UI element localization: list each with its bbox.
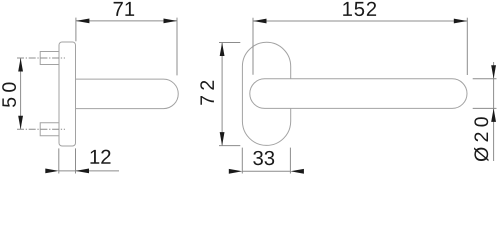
dimension 72: top arrow <box>220 43 225 57</box>
label 72 (rotated) <box>200 81 214 105</box>
dimension D20: top arrow (outside) <box>491 65 496 79</box>
dimension 152: right extension line <box>466 18 468 75</box>
dimension 152: right arrow <box>454 19 468 24</box>
oval rosette (front view) with gap at lever <box>242 42 290 145</box>
lever handle (front view) <box>250 79 467 109</box>
dimension 33: right arrow (outside) <box>290 169 304 174</box>
dimension 72: dimension line <box>221 43 223 146</box>
dimension 50: dimension line <box>20 58 22 129</box>
dimension 71: left extension line <box>75 18 77 42</box>
dimension 152: left extension line <box>252 18 254 75</box>
dimension 33: left extension line <box>241 148 243 174</box>
bottom fixing stud (side view) <box>40 123 59 136</box>
dimension 71: right arrow <box>164 19 178 24</box>
dimension D20: bottom arrow (outside) <box>491 108 496 122</box>
dimension 33: right extension line <box>289 148 291 174</box>
dimension 72: bottom extension line <box>219 145 240 147</box>
dimension 12: left extension line <box>58 148 60 173</box>
dimension 33: dimension line <box>242 170 290 172</box>
centerline bottom stud <box>17 128 65 130</box>
dimension 12: dimension line with right tail <box>59 170 119 172</box>
dimension 72: bottom arrow <box>220 132 225 146</box>
dimension 12: right extension line <box>75 148 77 173</box>
dimension D20: bottom extension line <box>473 107 497 109</box>
label 152 <box>343 2 376 16</box>
dimension 50: top arrow <box>18 58 23 72</box>
dimension 12: left arrow (outside) <box>45 169 59 174</box>
dimension 72: top extension line <box>219 42 240 44</box>
dimension D20: dimension line <box>493 62 495 161</box>
dimension 71: right extension line <box>176 18 178 76</box>
dimension 12: right arrow (outside) <box>76 169 90 174</box>
centerline top stud <box>17 57 65 59</box>
label D20 (rotated) <box>474 117 488 161</box>
dimension 152: left arrow <box>253 19 267 24</box>
label 12 <box>91 150 111 164</box>
label 33 <box>253 151 274 165</box>
label 71 <box>114 2 135 16</box>
dimension 50: bottom arrow <box>18 116 23 130</box>
top fixing stud (side view) <box>40 52 59 65</box>
dimension 71: left arrow <box>76 19 90 24</box>
lever handle (side view) <box>76 79 179 109</box>
dimension 71: dimension line <box>76 20 177 22</box>
dimension D20: top extension line <box>473 78 497 80</box>
dimension 152: dimension line <box>253 20 467 22</box>
rosette plate (side view) <box>59 42 76 146</box>
label 50 (rotated) <box>2 83 16 107</box>
dimension 33: left arrow (outside) <box>229 169 243 174</box>
